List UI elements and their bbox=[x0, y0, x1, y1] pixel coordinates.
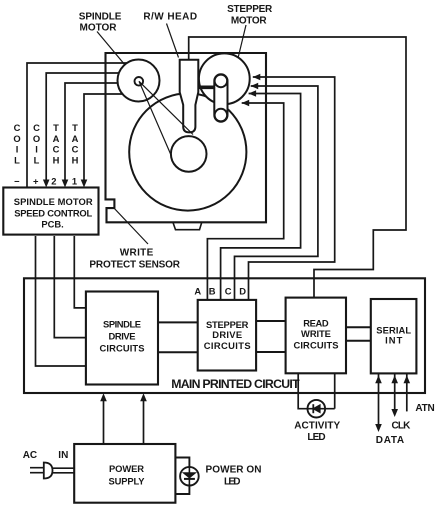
svg-text:R/W HEAD: R/W HEAD bbox=[143, 12, 197, 23]
svg-text:T: T bbox=[53, 122, 59, 133]
svg-text:ACTIVITY: ACTIVITY bbox=[294, 421, 340, 432]
svg-text:T: T bbox=[72, 122, 78, 133]
svg-text:LED: LED bbox=[307, 432, 325, 443]
svg-text:H: H bbox=[53, 154, 60, 165]
svg-text:READ: READ bbox=[303, 317, 329, 328]
svg-text:C: C bbox=[225, 286, 232, 297]
svg-text:LED: LED bbox=[224, 477, 241, 488]
svg-text:C: C bbox=[72, 144, 79, 155]
svg-text:MOTOR: MOTOR bbox=[80, 23, 118, 34]
svg-text:L: L bbox=[14, 154, 20, 165]
svg-text:A: A bbox=[194, 286, 201, 297]
svg-text:WRITE: WRITE bbox=[120, 248, 154, 259]
svg-text:SUPPLY: SUPPLY bbox=[109, 476, 146, 487]
svg-text:I: I bbox=[35, 144, 38, 155]
svg-text:D: D bbox=[239, 286, 246, 297]
svg-text:C: C bbox=[33, 122, 40, 133]
svg-text:SPINDLE: SPINDLE bbox=[79, 12, 122, 23]
svg-text:PCB.: PCB. bbox=[41, 219, 63, 230]
svg-text:−: − bbox=[14, 176, 20, 187]
svg-text:DRIVE: DRIVE bbox=[109, 331, 136, 342]
svg-text:POWER: POWER bbox=[109, 463, 144, 474]
svg-text:O: O bbox=[13, 133, 20, 144]
svg-text:IN: IN bbox=[58, 450, 68, 461]
svg-text:H: H bbox=[72, 154, 79, 165]
svg-text:2: 2 bbox=[51, 176, 56, 187]
svg-text:CIRCUITS: CIRCUITS bbox=[204, 340, 251, 351]
svg-text:DRIVE: DRIVE bbox=[212, 329, 242, 340]
svg-text:L: L bbox=[34, 154, 40, 165]
svg-text:PROTECT SENSOR: PROTECT SENSOR bbox=[89, 260, 180, 271]
svg-text:WRITE: WRITE bbox=[301, 328, 331, 339]
svg-text:SPINDLE: SPINDLE bbox=[103, 318, 141, 329]
svg-text:A: A bbox=[53, 133, 60, 144]
svg-text:CLK: CLK bbox=[392, 421, 412, 432]
svg-text:I: I bbox=[16, 144, 19, 155]
svg-text:POWER ON: POWER ON bbox=[206, 464, 262, 475]
svg-text:C: C bbox=[53, 144, 60, 155]
svg-text:CIRCUITS: CIRCUITS bbox=[100, 342, 145, 353]
svg-text:MAIN PRINTED CIRCUIT: MAIN PRINTED CIRCUIT bbox=[171, 377, 300, 391]
svg-text:SPINDLE MOTOR: SPINDLE MOTOR bbox=[14, 196, 93, 207]
svg-text:+: + bbox=[33, 176, 39, 187]
svg-text:A: A bbox=[72, 133, 79, 144]
svg-text:MOTOR: MOTOR bbox=[231, 15, 267, 26]
svg-text:STEPPER: STEPPER bbox=[227, 4, 273, 15]
svg-text:DATA: DATA bbox=[376, 435, 404, 446]
svg-text:CIRCUITS: CIRCUITS bbox=[293, 339, 338, 350]
svg-text:ATN: ATN bbox=[415, 403, 434, 414]
svg-text:1: 1 bbox=[72, 176, 77, 187]
svg-text:B: B bbox=[209, 286, 216, 297]
svg-text:SPEED CONTROL: SPEED CONTROL bbox=[14, 207, 92, 218]
svg-text:INT: INT bbox=[385, 335, 402, 346]
svg-text:AC: AC bbox=[23, 450, 37, 461]
svg-text:O: O bbox=[33, 133, 40, 144]
svg-text:C: C bbox=[14, 122, 21, 133]
